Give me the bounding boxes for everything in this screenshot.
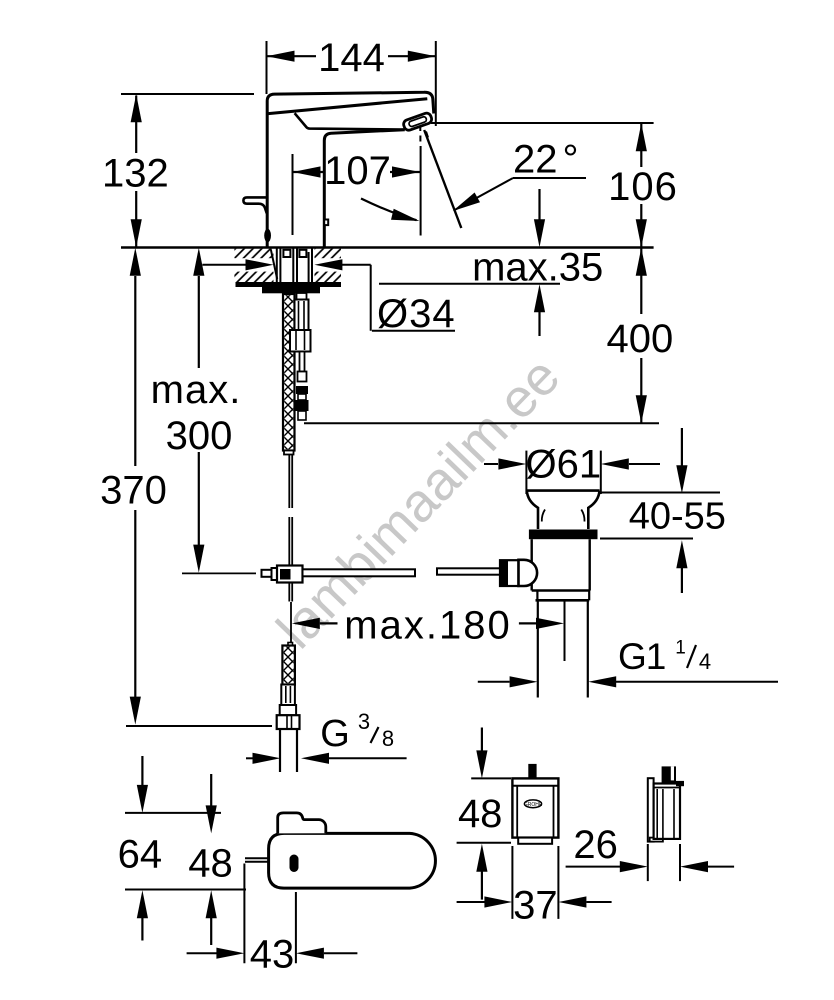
svg-text:Ø61: Ø61 [525, 443, 601, 487]
aerator / sensor at spout tip [402, 112, 432, 132]
22deg leader [513, 177, 586, 179]
dim 132 arrowheads [131, 94, 142, 122]
dim g114 arrows [478, 681, 510, 683]
dim 144 arrowheads [267, 51, 295, 62]
dim dia34 leader right [314, 259, 342, 270]
dim 106 arrowheads [636, 123, 647, 151]
front box body [512, 778, 558, 837]
svg-text:3: 3 [358, 709, 370, 734]
dim 48R line [481, 728, 483, 752]
svg-text:8: 8 [382, 726, 394, 751]
dim 107 line [293, 171, 326, 173]
dim 4055 upper line [681, 428, 683, 466]
faucet body silhouette [267, 92, 434, 247]
side box body [654, 784, 680, 839]
svg-text:132: 132 [102, 151, 169, 195]
dim 37 line [457, 901, 485, 903]
dim 132 top reference line [121, 93, 254, 95]
hose connector upper [297, 293, 307, 300]
dim 132 line [135, 96, 137, 154]
white mask for dia34 arrows [231, 258, 274, 271]
dim max180 line [292, 618, 320, 629]
dim 26 extension lines [647, 844, 649, 881]
top view lever [278, 813, 326, 834]
water stream slant line [424, 130, 461, 228]
svg-text:370: 370 [100, 468, 167, 512]
svg-text:107: 107 [324, 149, 391, 193]
svg-text:43: 43 [250, 932, 295, 976]
shank flange [262, 287, 320, 293]
g38 tube [279, 729, 281, 772]
shank wedge line [271, 249, 277, 279]
mounting washer under counter [236, 282, 342, 287]
drain tailpipe [537, 600, 539, 697]
svg-text:300: 300 [166, 414, 233, 458]
svg-text:max.: max. [151, 368, 242, 412]
dim 37 extension lines [511, 846, 513, 919]
sensor cable upper [288, 455, 290, 508]
dim 64 line [141, 756, 143, 786]
svg-text:max.180: max.180 [344, 603, 511, 647]
dim 64 bottom reference line [125, 889, 246, 891]
max35 lower reference line [379, 283, 560, 285]
dim 26 line [566, 866, 620, 868]
g38 connector [281, 685, 295, 706]
svg-text:max.35: max.35 [472, 246, 603, 290]
dim 4055 lower reference line [600, 538, 693, 540]
svg-text:400: 400 [607, 317, 674, 361]
dim max300 arrowheads [193, 248, 204, 276]
hose nut [290, 330, 311, 352]
svg-text:64: 64 [118, 832, 163, 876]
short dash next to stream [426, 132, 428, 138]
g38 crosshatch hose [282, 646, 295, 685]
max300 bottom reference line [182, 572, 256, 574]
side box cable gland [662, 766, 676, 783]
dim g38 arrows [246, 757, 253, 759]
side box bracket [648, 778, 654, 841]
counter top line [121, 246, 654, 248]
small nub on body left edge [264, 229, 271, 243]
dim dia61 arrows [484, 463, 498, 465]
dim 48L line [210, 774, 212, 806]
drain gasket [529, 530, 598, 540]
counter hatch right block [315, 249, 342, 283]
front box cable gland [528, 764, 536, 779]
drain lever ball cup [519, 560, 538, 586]
faucet spout crease line [267, 99, 427, 114]
pull rod right [303, 569, 416, 576]
cable tee fitting [272, 568, 278, 580]
svg-text:40-55: 40-55 [629, 495, 726, 537]
g38 block [280, 705, 296, 715]
svg-text:106: 106 [608, 165, 678, 209]
dim max180 extension line [564, 601, 566, 661]
sensor cable middle [288, 517, 290, 565]
svg-text:1: 1 [675, 638, 686, 659]
dim 370 bottom reference line [126, 725, 272, 727]
threaded shank with crosshatch [283, 294, 295, 451]
top view nose tick [245, 857, 268, 859]
dim max300 line [198, 276, 200, 368]
small button on body right edge [324, 220, 328, 226]
shank bottom cap [284, 451, 294, 455]
dim 64 top reference line [125, 812, 221, 814]
svg-text:26: 26 [573, 823, 618, 867]
dim 107 extension line [292, 154, 294, 235]
22deg vertical reference dashes [419, 126, 421, 131]
front box foot [518, 838, 552, 844]
faucet lower crease line [295, 113, 404, 129]
svg-text:G: G [320, 713, 350, 755]
dim 4055 upper reference line [600, 492, 720, 494]
dim 43 line [187, 952, 217, 954]
svg-text:37: 37 [513, 883, 558, 927]
side box top tick [676, 781, 684, 786]
dim max35 lower arrow [534, 284, 545, 312]
22deg vertical reference line [420, 146, 422, 236]
dim 106 top reference line [431, 122, 654, 124]
svg-text:22°: 22° [513, 138, 579, 182]
22deg sweep arc [361, 199, 417, 221]
dim dia61 extension lines [525, 451, 527, 494]
dim 144 extension lines [266, 41, 268, 94]
shank small squares [283, 250, 290, 257]
cable extension line [290, 602, 292, 661]
svg-text:48: 48 [458, 792, 503, 836]
hose collar [298, 372, 307, 382]
hose reference line 400 [304, 422, 659, 424]
top view sensor window [290, 855, 299, 873]
dim 144 line [267, 55, 317, 57]
svg-text:4: 4 [699, 649, 711, 674]
dim 106 line [640, 124, 642, 167]
dim dia34 leader left [202, 264, 250, 266]
plug connector [296, 386, 308, 394]
dim 107 arrowheads [293, 166, 321, 177]
dim max35 upper arrow [538, 189, 540, 220]
dim 4055 lower line [676, 540, 687, 568]
drain flange [527, 491, 600, 529]
drain lever block [500, 560, 519, 586]
g38 nut [277, 715, 300, 729]
hose tube [300, 352, 305, 372]
counter hatch left block [234, 249, 273, 283]
top view body capsule [269, 833, 436, 888]
svg-text:48: 48 [188, 841, 233, 885]
dim 400 arrowheads [636, 248, 647, 276]
sensor cable lower [288, 583, 290, 602]
g38 hose top cap [288, 643, 293, 647]
dim 48R extension lines [471, 777, 511, 779]
svg-text:Ø34: Ø34 [377, 292, 456, 336]
dim 370 line [134, 276, 136, 466]
svg-text:G1: G1 [618, 636, 665, 677]
faucet shank tubes [276, 248, 278, 282]
drain lever rod [437, 568, 500, 574]
pull rod left [262, 570, 272, 577]
front box grohe logo [524, 800, 541, 808]
drain body [531, 539, 533, 590]
svg-text:GROHE: GROHE [524, 802, 543, 808]
temperature lever on faucet left [243, 197, 266, 213]
dim 400 line [640, 249, 642, 315]
dim 43 extension lines [243, 864, 245, 964]
svg-text:144: 144 [318, 36, 385, 80]
dim 370 arrowheads [130, 248, 141, 276]
